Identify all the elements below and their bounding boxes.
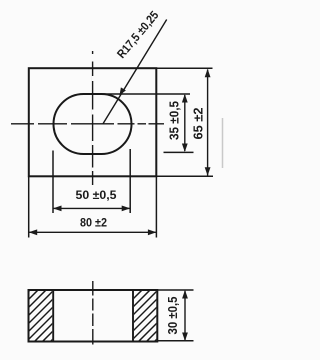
arrow 35-dim down — [182, 144, 188, 153]
50-dim left extension line — [52, 151, 54, 214]
arrow 30-dim down — [182, 333, 188, 342]
30-dim top extension line — [157, 289, 193, 291]
arrow 65-dim down — [205, 167, 211, 176]
80 dimension line — [29, 231, 156, 233]
slot (stadium shape) — [54, 94, 132, 154]
svg-text:30 ±0,5: 30 ±0,5 — [165, 297, 180, 335]
paper background — [0, 0, 224, 360]
top view outline: outer rectangle — [29, 68, 157, 176]
arrowheads (solid) — [29, 69, 211, 235]
30 dimension line — [184, 291, 186, 340]
arrow 65-dim up — [205, 69, 211, 78]
80-dim left extension line — [28, 176, 30, 237]
arrow 50-dim left — [53, 206, 62, 212]
hatching right band — [118, 274, 222, 346]
svg-text:35 ±0,5: 35 ±0,5 — [166, 101, 181, 140]
section inner edge right (hole wall) — [132, 290, 134, 342]
vertical centerline (top view) — [92, 51, 94, 54]
section outer rectangle — [29, 290, 158, 342]
35 dimension line — [184, 95, 186, 151]
35-dim bottom extension line — [164, 151, 194, 153]
arrow 80-dim left — [29, 229, 38, 235]
horizontal centerline (top view) — [11, 123, 164, 125]
leader line R17.5 — [103, 20, 167, 124]
arrow 35-dim up — [182, 94, 188, 103]
50 dimension line — [54, 207, 130, 209]
65 dimension line — [207, 70, 209, 176]
svg-text:80 ±2: 80 ±2 — [80, 216, 107, 230]
arrow 50-dim right — [122, 206, 131, 212]
chain-line gaps (white) on centerlines — [34, 76, 149, 329]
arrow 30-dim up — [182, 290, 188, 299]
scan artifact: faint right edge streak — [222, 118, 224, 168]
top edge extension to 65-dim — [156, 67, 212, 69]
arrow radius leader — [120, 87, 126, 95]
section inner edge left (hole wall) — [52, 290, 54, 342]
50-dim right extension line — [129, 149, 131, 213]
arrow 80-dim right — [148, 229, 157, 235]
35-dim top extension line (continues slot top) — [101, 93, 190, 95]
hatching left band — [14, 274, 118, 346]
30-dim bottom extension line — [157, 340, 193, 342]
bottom edge extension to 65-dim — [156, 175, 213, 177]
svg-text:65 ±2: 65 ±2 — [190, 108, 205, 140]
section vertical centerline — [92, 281, 94, 345]
80-dim right extension line — [155, 176, 157, 237]
svg-text:50 ±0,5: 50 ±0,5 — [76, 188, 117, 202]
